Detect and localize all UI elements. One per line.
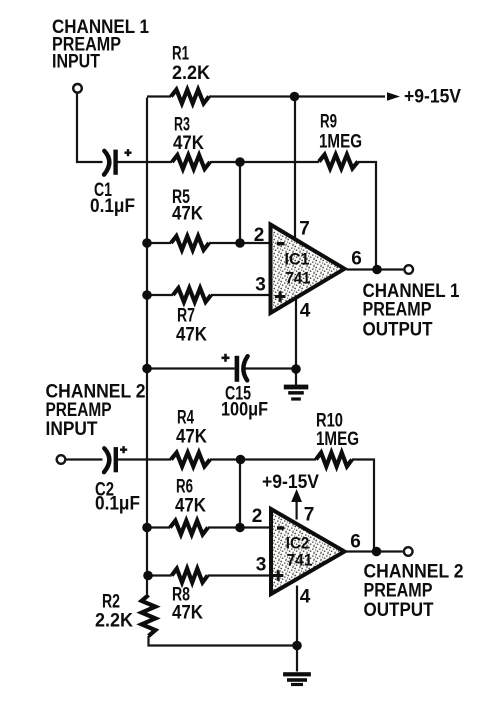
svg-text:+9-15V: +9-15V bbox=[404, 87, 461, 108]
svg-text:R4: R4 bbox=[177, 408, 194, 429]
svg-text:PREAMP: PREAMP bbox=[364, 581, 433, 602]
svg-text:CHANNEL 2: CHANNEL 2 bbox=[364, 562, 464, 583]
svg-text:100μF: 100μF bbox=[221, 400, 268, 421]
svg-text:47K: 47K bbox=[175, 496, 206, 517]
svg-text:2.2K: 2.2K bbox=[172, 63, 210, 84]
svg-text:1MEG: 1MEG bbox=[316, 429, 359, 450]
svg-text:R7: R7 bbox=[177, 306, 195, 327]
svg-text:OUTPUT: OUTPUT bbox=[363, 320, 433, 341]
svg-text:R1: R1 bbox=[172, 44, 189, 65]
svg-text:47K: 47K bbox=[172, 204, 203, 225]
svg-text:INPUT: INPUT bbox=[46, 419, 98, 440]
svg-text:2.2K: 2.2K bbox=[95, 611, 133, 632]
svg-text:1MEG: 1MEG bbox=[319, 132, 362, 153]
svg-text:R6: R6 bbox=[176, 477, 193, 498]
svg-text:47K: 47K bbox=[173, 133, 204, 154]
svg-text:2: 2 bbox=[252, 506, 263, 527]
svg-text:7: 7 bbox=[299, 219, 310, 240]
svg-text:0.1μF: 0.1μF bbox=[90, 196, 135, 217]
svg-text:INPUT: INPUT bbox=[52, 52, 100, 73]
svg-text:R2: R2 bbox=[102, 592, 120, 613]
svg-text:R9: R9 bbox=[320, 112, 337, 133]
svg-text:7: 7 bbox=[304, 505, 315, 526]
svg-text:6: 6 bbox=[350, 532, 361, 553]
svg-text:741: 741 bbox=[286, 269, 311, 288]
svg-text:2: 2 bbox=[254, 225, 265, 246]
svg-text:47K: 47K bbox=[176, 427, 207, 448]
svg-text:3: 3 bbox=[256, 555, 267, 576]
svg-text:3: 3 bbox=[255, 275, 266, 296]
svg-text:+9-15V: +9-15V bbox=[262, 472, 319, 493]
svg-text:PREAMP: PREAMP bbox=[363, 300, 432, 321]
svg-text:6: 6 bbox=[351, 249, 362, 270]
svg-text:4: 4 bbox=[300, 301, 311, 322]
svg-text:0.1μF: 0.1μF bbox=[95, 494, 140, 515]
svg-text:47K: 47K bbox=[176, 325, 207, 346]
svg-text:OUTPUT: OUTPUT bbox=[364, 600, 434, 621]
svg-text:4: 4 bbox=[300, 587, 311, 608]
svg-text:PREAMP: PREAMP bbox=[46, 400, 112, 421]
svg-text:741: 741 bbox=[287, 551, 313, 570]
svg-text:IC1: IC1 bbox=[285, 250, 310, 269]
svg-text:47K: 47K bbox=[172, 603, 203, 624]
